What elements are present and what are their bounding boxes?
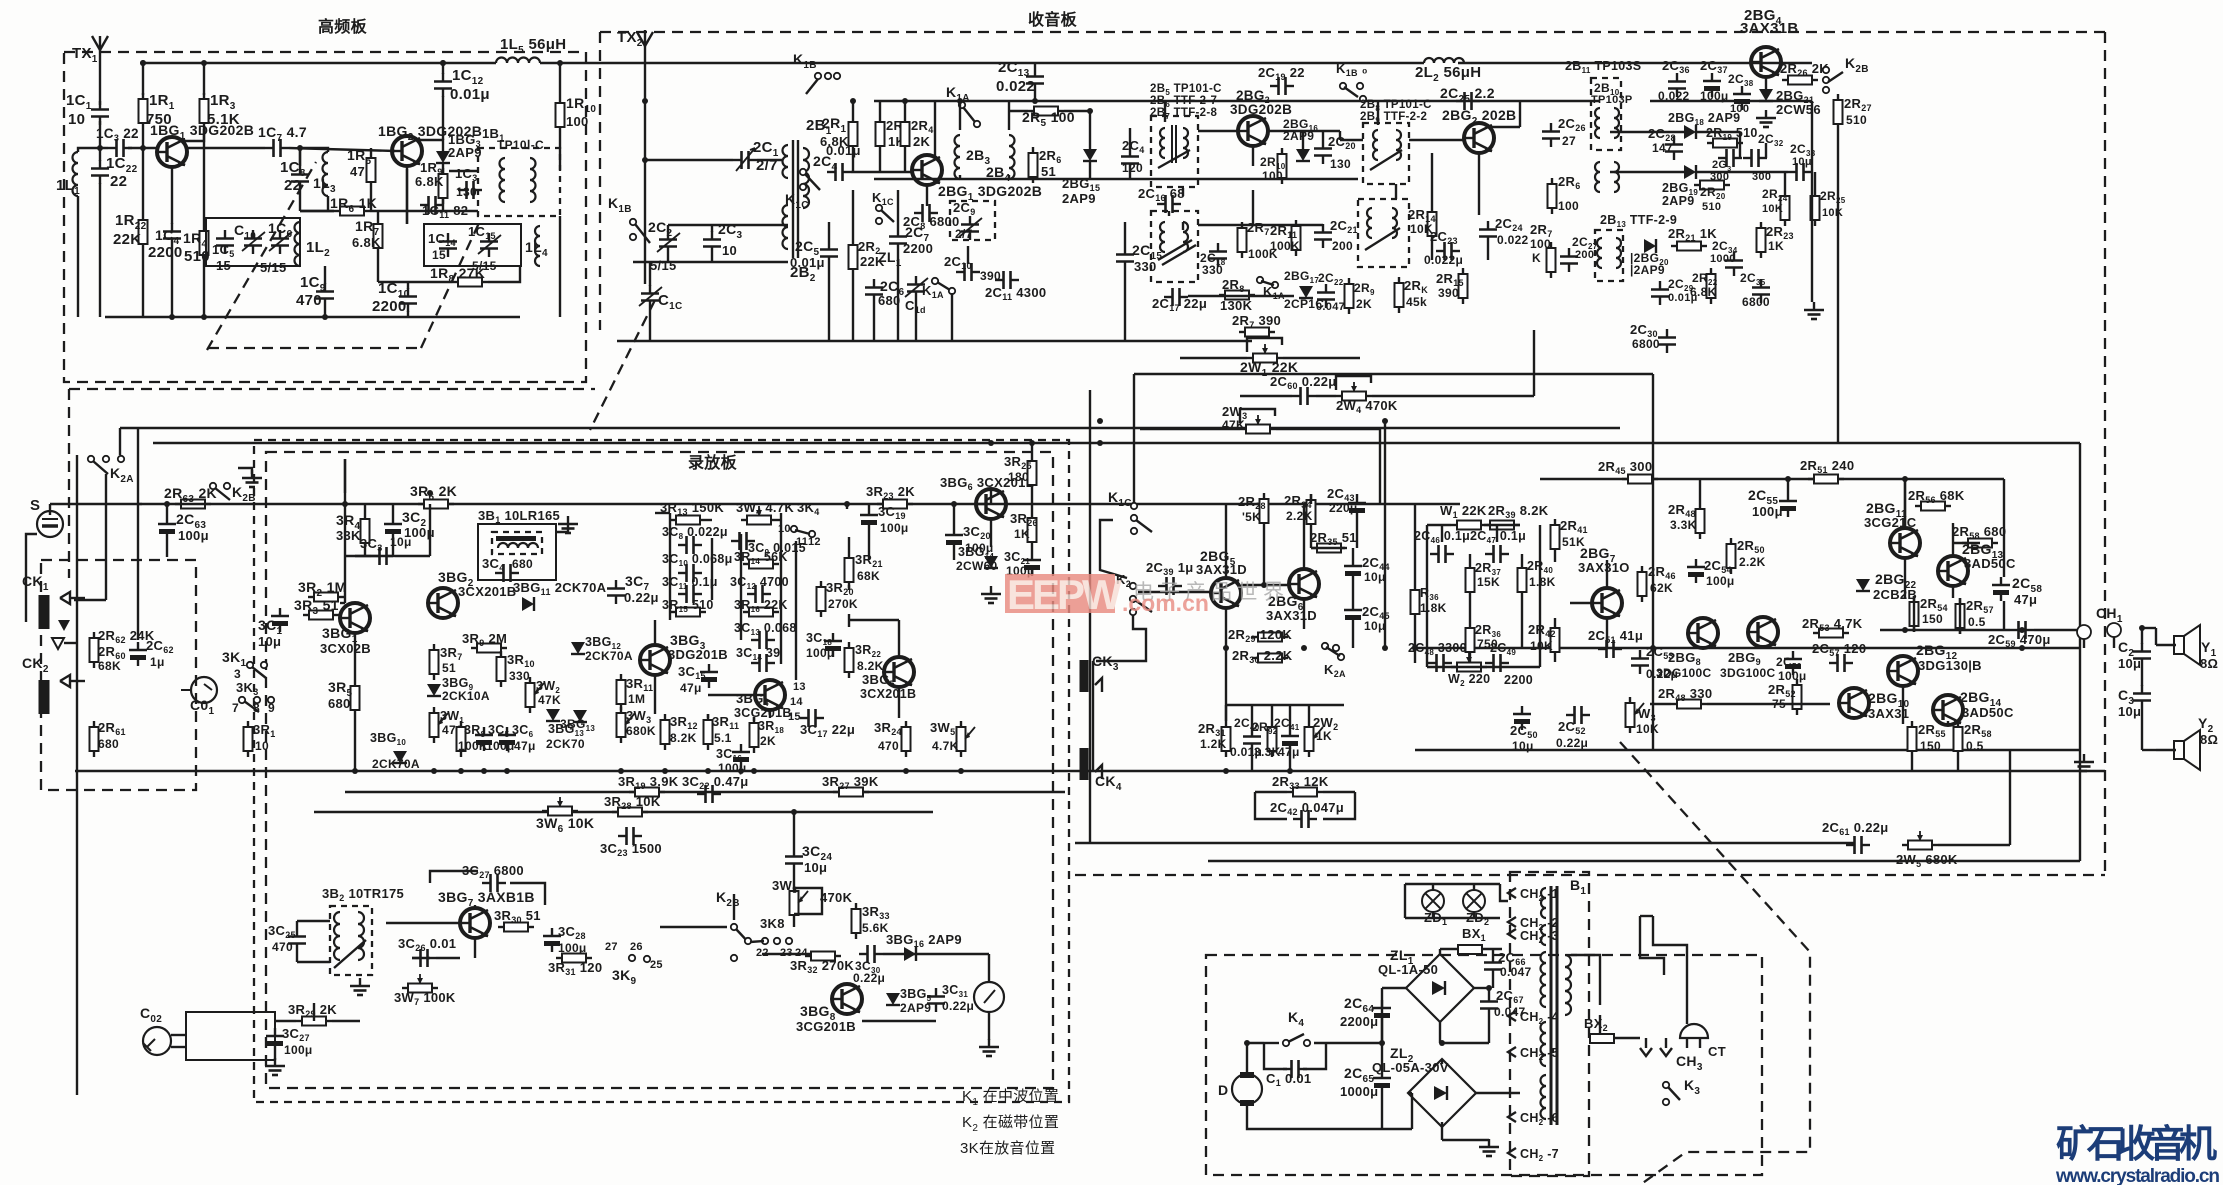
wire 1BG2 emitter bbox=[406, 166, 408, 224]
svg-text:3CX02B: 3CX02B bbox=[320, 641, 371, 656]
node bus6 bbox=[1097, 418, 1103, 424]
node RF gnd 2 bbox=[201, 314, 207, 320]
svg-text:22: 22 bbox=[284, 177, 301, 194]
switch K1C bbox=[800, 169, 820, 190]
IF transformer 2B5 coils bbox=[1160, 128, 1165, 158]
wire 2C58 col bbox=[2003, 479, 2005, 577]
svg-text:1.8K: 1.8K bbox=[1420, 601, 1447, 615]
svg-text:1000μ: 1000μ bbox=[1340, 1084, 1378, 1099]
wire 1R3 top bbox=[203, 63, 205, 95]
tape head CK1 bbox=[39, 595, 50, 629]
wire EQ top bbox=[655, 512, 670, 514]
resistor 2R26 bbox=[1782, 76, 1818, 85]
wire antenna stem bbox=[644, 101, 646, 284]
IF transformer 2B10 coils bbox=[1595, 108, 1600, 138]
svg-text:2R58 680: 2R58 680 bbox=[1952, 524, 2006, 541]
wire 2R14 col bbox=[1431, 153, 1433, 206]
svg-text:51: 51 bbox=[442, 661, 456, 675]
potentiometer 3W7 bbox=[402, 984, 438, 993]
wire 1R7 bottom bbox=[377, 254, 379, 282]
svg-text:100K: 100K bbox=[1270, 239, 1300, 253]
svg-text:高频板: 高频板 bbox=[318, 17, 368, 36]
radio board dashed outline left upper bbox=[599, 32, 601, 330]
svg-text:2CK10A: 2CK10A bbox=[442, 689, 490, 703]
svg-text:0.5: 0.5 bbox=[1966, 739, 1984, 753]
capacitor 3C8 bbox=[678, 536, 702, 554]
svg-text:2C11 4300: 2C11 4300 bbox=[985, 285, 1046, 302]
svg-text:200: 200 bbox=[1332, 239, 1353, 253]
svg-text:680: 680 bbox=[512, 557, 533, 571]
wire C1C bbox=[649, 262, 651, 286]
potentiometer W3 bbox=[1626, 697, 1635, 733]
svg-text:1.8K: 1.8K bbox=[1529, 575, 1556, 589]
wire IF1 to 2BG2 bbox=[1198, 130, 1238, 132]
wire speaker feed bbox=[2141, 628, 2143, 644]
capacitor 3C9 bbox=[731, 532, 755, 550]
transistor 2BG4 bbox=[1751, 47, 1781, 77]
svg-text:6.8K: 6.8K bbox=[352, 235, 381, 250]
svg-text:120: 120 bbox=[1122, 161, 1143, 175]
inductor 1L1 bbox=[73, 152, 78, 196]
svg-text:51: 51 bbox=[1041, 164, 1056, 179]
resistor 2R31 bbox=[1222, 721, 1231, 757]
capacitor 2C32 bbox=[1743, 149, 1767, 167]
wire osc col x853b bbox=[904, 158, 906, 172]
electrolytic 3C18 bbox=[824, 633, 842, 657]
tap arrow CH2-5 bbox=[1508, 1047, 1516, 1057]
svg-text:3CG201B: 3CG201B bbox=[796, 1019, 856, 1034]
resistor 3R5 bbox=[351, 680, 360, 716]
inductor 1L5 bbox=[496, 58, 540, 63]
switch pins 25 26 27 bbox=[629, 955, 635, 961]
transistor 2BG7 bbox=[1592, 588, 1622, 618]
resistor 3R19 bbox=[629, 788, 665, 797]
svg-text:0.22μ: 0.22μ bbox=[942, 999, 974, 1013]
svg-text:2B13 TTF-2-9: 2B13 TTF-2-9 bbox=[1600, 213, 1677, 229]
wire 1R6 right bbox=[370, 210, 443, 212]
svg-text:1000: 1000 bbox=[1710, 253, 1736, 265]
svg-text:2CB2B: 2CB2B bbox=[1873, 587, 1917, 602]
diode 3BG13 bbox=[546, 709, 560, 721]
svg-text:47μ: 47μ bbox=[680, 681, 702, 695]
wire rec top bus left bbox=[50, 503, 330, 505]
svg-text:录放板: 录放板 bbox=[688, 453, 738, 472]
resistor 3R4 bbox=[361, 513, 370, 549]
capacitor 2C13 bbox=[1026, 68, 1044, 92]
switch 3K4 bbox=[791, 526, 815, 537]
electrolytic 2C41 bbox=[1281, 728, 1299, 752]
tape head CK4 bbox=[1080, 748, 1089, 780]
wire 2R2 bbox=[852, 190, 854, 239]
wire lamps bbox=[1432, 884, 1434, 890]
svg-text:6.8K: 6.8K bbox=[1690, 285, 1717, 299]
capacitor 1C4 bbox=[163, 223, 181, 247]
capacitor 2C52 bbox=[1566, 706, 1590, 724]
svg-text:2W4 470K: 2W4 470K bbox=[1336, 398, 1398, 415]
radio board dashed outline top bbox=[600, 31, 2105, 33]
wire 1C9 top bbox=[324, 266, 326, 284]
wire 2C44 col bbox=[1352, 548, 1354, 558]
capacitor 2C24 bbox=[1479, 221, 1497, 245]
resistor 2R55 bbox=[1908, 721, 1917, 757]
svg-text:47K: 47K bbox=[538, 693, 561, 707]
wire 1R1 top bbox=[142, 63, 144, 95]
wire 2R134 tops bbox=[852, 101, 854, 116]
wire bias row bbox=[332, 1020, 360, 1022]
capacitor 2C25 bbox=[1456, 92, 1480, 110]
capacitor 2C28 bbox=[1665, 136, 1683, 160]
microphone S bbox=[37, 511, 63, 537]
potentiometer 3W1 bbox=[430, 707, 439, 743]
resistor 2R61 bbox=[90, 721, 99, 757]
transistor 2BG11 bbox=[1890, 528, 1920, 558]
capacitor 2C3 bbox=[703, 231, 721, 255]
transformer B1 secondary bbox=[1565, 955, 1571, 1015]
wire meter bbox=[988, 1012, 990, 1040]
transistor 2BG2 bbox=[1238, 116, 1268, 146]
capacitor 2C11 bbox=[995, 271, 1019, 289]
wire audio cluster bbox=[1226, 704, 1344, 706]
switch K2B bbox=[1823, 67, 1843, 93]
transistor 2BG5 bbox=[1211, 578, 1241, 608]
wire 1L3 top bbox=[300, 148, 328, 152]
svg-text:2/7: 2/7 bbox=[955, 227, 973, 241]
IF transformer 2B10 box bbox=[1591, 78, 1621, 150]
resistor 3R3 bbox=[303, 611, 339, 620]
resistor 2R24 bbox=[1781, 190, 1790, 226]
svg-text:W1 22K: W1 22K bbox=[1440, 503, 1487, 520]
electrolytic 2C54 bbox=[1687, 559, 1705, 583]
svg-text:3AX31O: 3AX31O bbox=[1578, 560, 1630, 575]
wire AGC row bbox=[1134, 373, 1653, 375]
svg-text:3CX201B: 3CX201B bbox=[860, 687, 916, 701]
wire long bus y443 bbox=[153, 442, 2080, 444]
erase head C02 bbox=[143, 1027, 171, 1055]
svg-text:2R48 330: 2R48 330 bbox=[1658, 686, 1712, 703]
transistor 3BG4 bbox=[755, 680, 785, 710]
capacitor 2C35 bbox=[1752, 279, 1770, 303]
diode 3BG12 bbox=[571, 642, 585, 654]
resistor 2R56 bbox=[1915, 502, 1951, 511]
resistor 3R29 bbox=[296, 1017, 332, 1026]
svg-text:0.01μ: 0.01μ bbox=[790, 255, 825, 270]
tap arrow CH2-2 bbox=[1508, 917, 1516, 927]
radio board dashed outline right bbox=[2104, 32, 2106, 875]
electrolytic 2C45 bbox=[1344, 602, 1362, 626]
resistor 3R13 bbox=[670, 516, 706, 525]
svg-text:15: 15 bbox=[432, 248, 446, 262]
record board dashed outline outer bbox=[254, 440, 1069, 1102]
svg-text:0.047: 0.047 bbox=[1500, 965, 1532, 979]
transistor 2BG1 bbox=[912, 155, 942, 185]
capacitor 2C59 bbox=[2010, 621, 2034, 639]
svg-text:3AD50C: 3AD50C bbox=[1962, 705, 2014, 720]
wire tone feeds bbox=[1441, 525, 1443, 542]
capacitor 3C12 bbox=[747, 585, 771, 603]
electrolytic 3C2 bbox=[384, 516, 402, 540]
svg-text:130: 130 bbox=[456, 185, 477, 199]
resistor 3R23 bbox=[877, 500, 913, 509]
svg-text:10K: 10K bbox=[1636, 722, 1659, 736]
svg-text:47μ: 47μ bbox=[1278, 745, 1300, 759]
jack CH1 b bbox=[2107, 623, 2121, 637]
svg-text:3C22 0.47μ: 3C22 0.47μ bbox=[682, 774, 749, 791]
diode 2BG20 bbox=[1644, 239, 1656, 253]
wire motor loop bbox=[1247, 1043, 1264, 1072]
svg-text:2BG18 2AP9: 2BG18 2AP9 bbox=[1668, 111, 1740, 127]
wire ground bus 2 bbox=[1415, 749, 2080, 751]
svg-text:www.crystalradio.cn: www.crystalradio.cn bbox=[2055, 1166, 2220, 1185]
resistor 1R7 bbox=[374, 218, 383, 254]
IF transformer 2 box bbox=[1151, 211, 1198, 282]
transistor 3BG5 bbox=[884, 657, 914, 687]
loop 3B1 bbox=[478, 524, 556, 580]
wire 2W3 bbox=[1140, 428, 1240, 430]
svg-text:10μ: 10μ bbox=[1792, 156, 1812, 168]
svg-text:QL-1A-50: QL-1A-50 bbox=[1378, 962, 1438, 977]
resistor 1R4 bbox=[200, 225, 209, 261]
svg-text:130: 130 bbox=[1330, 157, 1351, 171]
electrolytic 3C1 bbox=[271, 608, 289, 632]
resistor 2R58t bbox=[1962, 539, 1998, 548]
capacitor 1C10 bbox=[399, 288, 417, 312]
svg-text:15K: 15K bbox=[1477, 575, 1500, 589]
capacitor 2C6 bbox=[865, 279, 883, 303]
svg-text:2AP9: 2AP9 bbox=[1062, 191, 1096, 206]
variable capacitor 1C6 bbox=[271, 230, 289, 254]
capacitor 2C31 bbox=[1718, 149, 1742, 167]
capacitor 2C34 bbox=[1725, 252, 1743, 276]
inductor 1L2 bbox=[295, 222, 301, 266]
svg-text:8.2K: 8.2K bbox=[670, 731, 697, 745]
electrolytic 2C37 bbox=[1703, 73, 1721, 97]
capacitor 2C47 bbox=[1485, 545, 1509, 563]
node bus2 bbox=[164, 501, 170, 507]
capacitor 2C67 bbox=[1480, 993, 1498, 1017]
electrolytic 2C58 bbox=[1992, 577, 2010, 601]
ground 3BG14 bbox=[981, 586, 1001, 603]
bias trap 3B1 box bbox=[492, 532, 542, 554]
svg-text:3K8: 3K8 bbox=[760, 916, 785, 931]
capacitor 3C22 bbox=[697, 785, 721, 803]
capacitor 3C7 bbox=[607, 580, 625, 604]
wire right vertical x2080 bbox=[2079, 443, 2081, 861]
svg-text:2.2K: 2.2K bbox=[1739, 555, 1766, 569]
electrolytic 3C21 bbox=[1023, 552, 1041, 576]
ground meter bbox=[979, 1039, 999, 1056]
resistor 3R15 bbox=[670, 608, 706, 617]
wire mic bbox=[49, 504, 51, 515]
resistor 2R42 bbox=[1551, 622, 1560, 658]
svg-text:680: 680 bbox=[328, 696, 351, 711]
capacitor 3C23 bbox=[618, 827, 642, 845]
svg-text:15: 15 bbox=[788, 711, 801, 723]
svg-text:'5K: '5K bbox=[1242, 510, 1261, 524]
svg-text:3R9 2M: 3R9 2M bbox=[462, 631, 507, 648]
wire 1R4 bbox=[203, 148, 205, 225]
inductor 1L4 bbox=[535, 226, 540, 266]
wire 2BG1 emitter bbox=[926, 185, 928, 206]
potentiometer 3W6 bbox=[542, 807, 578, 816]
resistor 2R1 bbox=[849, 116, 858, 152]
wire 1C22 bottom bbox=[99, 183, 101, 317]
svg-text:0.022μ: 0.022μ bbox=[1424, 253, 1463, 267]
svg-text:10K: 10K bbox=[1822, 207, 1843, 219]
wire 2BG3 emitter bbox=[1478, 153, 1480, 215]
bias transformer 3B2 box bbox=[330, 906, 372, 975]
transistor 1BG1 bbox=[157, 137, 187, 167]
svg-text:470: 470 bbox=[296, 292, 322, 309]
switch K3 bbox=[1663, 1082, 1669, 1088]
capacitor 3C17 bbox=[800, 709, 824, 727]
svg-text:EEPW: EEPW bbox=[1007, 571, 1122, 618]
variable capacitor C1C bbox=[641, 285, 659, 309]
meter M bbox=[974, 982, 1004, 1012]
gang linkage dashed horizontal bbox=[208, 347, 421, 349]
resistor 3R10 bbox=[497, 651, 506, 687]
potentiometer 2W2 bbox=[1305, 721, 1314, 757]
antenna coil 2B3 bbox=[955, 135, 961, 179]
svg-text:3C8 0.022μ: 3C8 0.022μ bbox=[662, 525, 728, 541]
svg-text:收音板: 收音板 bbox=[1028, 10, 1078, 29]
wire audio mid bus bbox=[1415, 647, 2080, 649]
plug chevrons bbox=[1640, 1048, 1652, 1056]
wire 1C12 top bbox=[442, 63, 444, 74]
resistor 2R54 bbox=[1910, 596, 1919, 632]
svg-text:3C13 0.068: 3C13 0.068 bbox=[734, 621, 797, 637]
wire 2C14 bbox=[1129, 128, 1131, 148]
resistor 2R60 bbox=[90, 632, 99, 668]
resistor 2R41 bbox=[1551, 519, 1560, 555]
potentiometer 3W2 bbox=[526, 677, 535, 713]
oscillator coil 2B1 left upper bbox=[783, 145, 788, 178]
svg-text:26: 26 bbox=[630, 941, 643, 953]
gang capacitor dashed diagonal 1 bbox=[207, 162, 316, 350]
svg-text:68K: 68K bbox=[857, 569, 880, 583]
svg-text:3DG100C: 3DG100C bbox=[1656, 666, 1711, 680]
capacitor 2C33 bbox=[1788, 163, 1812, 181]
plug CT bbox=[1680, 1024, 1708, 1038]
svg-text:1.2K: 1.2K bbox=[1200, 737, 1227, 751]
wire EQ vertical 4 bbox=[780, 513, 782, 664]
oscillator coil 2B2 left lower bbox=[783, 205, 788, 249]
wire 1C7 right bbox=[289, 148, 395, 151]
resistor 3R26 bbox=[1028, 512, 1037, 548]
resistor 3R27 bbox=[833, 788, 869, 797]
svg-text:2200: 2200 bbox=[372, 298, 407, 315]
resistor 3R7 bbox=[430, 644, 439, 680]
svg-text:0.01μ: 0.01μ bbox=[450, 86, 490, 103]
svg-text:2C51 41μ: 2C51 41μ bbox=[1588, 628, 1643, 645]
resistor 2R22 bbox=[1707, 268, 1716, 304]
svg-text:2200: 2200 bbox=[903, 241, 933, 256]
svg-text:100μ: 100μ bbox=[1700, 89, 1729, 103]
svg-text:390: 390 bbox=[1438, 286, 1459, 300]
svg-text:1K: 1K bbox=[1316, 729, 1332, 743]
capacitor 2C57 bbox=[1829, 654, 1853, 672]
wire bias osc bbox=[386, 922, 460, 924]
antenna TX2 bbox=[637, 30, 653, 101]
wire 3R21 col bbox=[848, 537, 850, 552]
electrolytic 3C16 bbox=[732, 744, 750, 768]
transformer B1 dashed outline bbox=[1510, 872, 1589, 1176]
resistor 3R1 bbox=[244, 721, 253, 757]
wire 1R3 bottom bbox=[203, 129, 205, 148]
svg-text:0.022: 0.022 bbox=[1658, 89, 1690, 103]
svg-text:8: 8 bbox=[253, 701, 260, 715]
wire radio bottom bus bbox=[617, 340, 1252, 342]
svg-text:0.5: 0.5 bbox=[1968, 615, 1986, 629]
svg-text:矿石收音机: 矿石收音机 bbox=[2056, 1124, 2217, 1166]
capacitor 2C40 bbox=[1243, 728, 1261, 752]
tape head CK2 bbox=[39, 680, 50, 714]
svg-text:2CK70A: 2CK70A bbox=[372, 757, 420, 771]
jack CH1 a bbox=[2077, 625, 2091, 639]
svg-text:2B11 TP103S: 2B11 TP103S bbox=[1565, 59, 1641, 75]
svg-text:6800: 6800 bbox=[1632, 337, 1660, 351]
svg-text:2C59 470μ: 2C59 470μ bbox=[1988, 632, 2051, 649]
capacitor 3C25 bbox=[288, 928, 306, 952]
wire EQ vertical 1 bbox=[669, 513, 671, 620]
wire K4 loop bbox=[1264, 1042, 1279, 1044]
transistor 3BG3 bbox=[640, 645, 670, 675]
switch K2A audio bbox=[1322, 643, 1344, 660]
svg-text:10K: 10K bbox=[1530, 639, 1553, 653]
svg-text:2W5 680K: 2W5 680K bbox=[1896, 852, 1958, 869]
svg-text:100μ: 100μ bbox=[1706, 574, 1735, 588]
tap arrow CH2-6 bbox=[1508, 1112, 1516, 1122]
svg-text:3: 3 bbox=[234, 667, 241, 681]
IF transformer 2B8 box bbox=[1363, 123, 1409, 184]
svg-text:0.022: 0.022 bbox=[996, 78, 1035, 95]
resistor 2R52 bbox=[1793, 679, 1802, 715]
wire 1C12 bottom bbox=[442, 96, 444, 140]
resistor 1R3 bbox=[200, 93, 209, 129]
wire osc cluster bbox=[667, 225, 669, 232]
svg-text:330: 330 bbox=[1134, 259, 1157, 274]
svg-text:100: 100 bbox=[1262, 169, 1283, 183]
resistor 1R10 bbox=[556, 97, 565, 133]
electrolytic 2C63 bbox=[158, 516, 176, 540]
switch K2A bbox=[88, 456, 124, 474]
wire rec left col bbox=[344, 459, 346, 493]
transistor 2BG10 bbox=[1839, 688, 1869, 718]
wire long bus y421 bbox=[120, 427, 1620, 429]
head CK3 arrow bbox=[1095, 678, 1102, 692]
resistor 3R8 bbox=[457, 721, 466, 757]
EEPW watermark logo bbox=[1005, 571, 1209, 618]
potentiometer 2W5 bbox=[1902, 841, 1938, 850]
svg-text:47: 47 bbox=[350, 164, 365, 179]
wire 1C8 bbox=[299, 148, 301, 166]
wire 1L5 right bbox=[540, 62, 586, 64]
capacitor 3C30 bbox=[859, 945, 883, 963]
resistor 2R3 bbox=[876, 116, 885, 152]
svg-text:470K: 470K bbox=[820, 890, 853, 905]
node out1 bbox=[1902, 476, 1908, 482]
wire antenna to node bbox=[99, 121, 101, 148]
diode 2BG22 bbox=[1856, 579, 1870, 591]
svg-text:510: 510 bbox=[1846, 113, 1867, 127]
svg-text:TP103P: TP103P bbox=[1591, 94, 1633, 106]
svg-text:3R27 39K: 3R27 39K bbox=[822, 774, 879, 791]
electrolytic 2C50 bbox=[1513, 706, 1531, 730]
svg-text:0.22μ: 0.22μ bbox=[624, 590, 659, 605]
transformer 1B1 secondary bbox=[530, 158, 536, 202]
node 1R1 base bbox=[140, 145, 146, 151]
transistor 3BG6 bbox=[976, 489, 1006, 519]
capacitor 2C17 bbox=[1164, 288, 1188, 306]
